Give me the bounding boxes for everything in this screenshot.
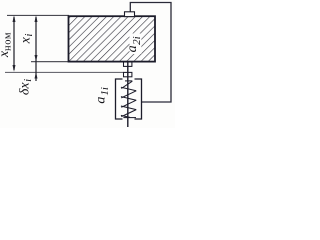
node lower reference line — [5, 71, 124, 73]
dimension x_nom line — [13, 15, 16, 71]
top contact tab — [125, 12, 135, 17]
spring a1i — [121, 81, 136, 118]
label x_i — [18, 34, 35, 45]
contact tab 2 — [124, 72, 132, 76]
label delta x_i — [18, 79, 35, 95]
rod — [127, 62, 129, 127]
label x_nom — [0, 32, 14, 58]
bracket right — [135, 79, 142, 119]
node upper reference segment — [31, 61, 69, 63]
contact tab 1 — [124, 62, 132, 66]
part a2i hatched block — [69, 16, 156, 61]
svg-text:xном: xном — [0, 32, 14, 58]
label a1i — [94, 87, 111, 104]
label a2i — [125, 36, 143, 52]
wire — [130, 3, 171, 103]
bracket left — [116, 79, 123, 119]
dimension x_i line — [35, 15, 38, 81]
node top reference line — [7, 14, 69, 16]
